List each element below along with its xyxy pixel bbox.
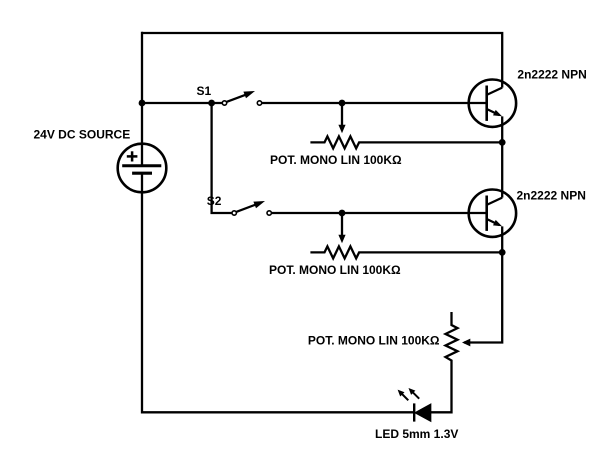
svg-text:LED 5mm 1.3V: LED 5mm 1.3V	[375, 427, 458, 441]
wire left rail lower and bottom rail	[142, 173, 414, 412]
potentiometer P1 POT. MONO LIN 100K	[310, 104, 502, 148]
junction node P2 to Q2 emitter	[499, 249, 506, 256]
svg-text:POT. MONO LIN 100KΩ: POT. MONO LIN 100KΩ	[308, 333, 440, 347]
LED D1	[398, 388, 431, 422]
wire Q1 emitter to Q2 collector	[501, 116, 503, 197]
wire from positive rail to switch S1	[142, 102, 222, 104]
wire S1 output to Q1 base	[262, 102, 487, 104]
junction node P1 to Q1 emitter	[499, 139, 506, 146]
wire top rail and collector drop	[142, 33, 502, 88]
svg-text:S1: S1	[197, 84, 212, 98]
potentiometer P3 POT. MONO LIN 100K vertical	[431, 312, 471, 412]
svg-text:POT. MONO LIN 100KΩ: POT. MONO LIN 100KΩ	[270, 153, 402, 167]
junction node P1 wiper tap	[339, 100, 346, 107]
svg-text:24V DC SOURCE: 24V DC SOURCE	[34, 128, 131, 142]
wire left rail upper	[141, 32, 143, 166]
junction node P2 wiper tap	[339, 210, 346, 217]
wire S2 output to Q2 base	[271, 212, 486, 214]
switch S1	[222, 91, 261, 105]
svg-text:2n2222 NPN: 2n2222 NPN	[517, 67, 586, 81]
wire Q2 emitter down to P3 wiper	[464, 226, 502, 342]
wire S2 branch drop and feed	[212, 103, 232, 213]
svg-text:S2: S2	[207, 194, 222, 208]
potentiometer P2 POT. MONO LIN 100K	[310, 214, 502, 258]
junction node at left rail / S1 feed	[139, 100, 146, 107]
svg-text:POT. MONO LIN 100KΩ: POT. MONO LIN 100KΩ	[269, 263, 401, 277]
svg-text:2n2222 NPN: 2n2222 NPN	[517, 188, 586, 202]
battery V1 24V DC source	[118, 144, 167, 193]
transistor Q2 2n2222 NPN	[469, 190, 516, 237]
junction node S1/S2 branch	[208, 100, 215, 107]
transistor Q1 2n2222 NPN	[469, 80, 516, 127]
switch S2	[232, 201, 271, 215]
